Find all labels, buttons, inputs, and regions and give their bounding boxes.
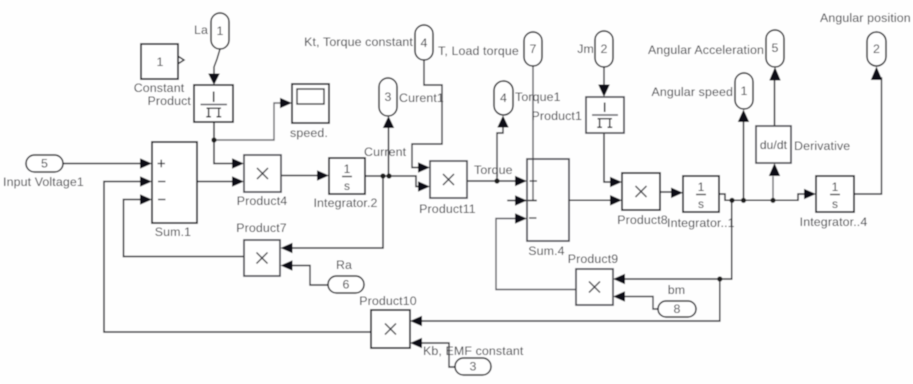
svg-text:1: 1 bbox=[740, 84, 747, 98]
arrow into Sum.4 input2 bbox=[515, 195, 527, 206]
wire du-dt up to Angular Acceleration bbox=[774, 81, 776, 126]
icon X Product11 bbox=[443, 174, 454, 185]
svg-text:Sum.4: Sum.4 bbox=[528, 244, 564, 258]
svg-text:Angular Acceleration: Angular Acceleration bbox=[648, 43, 764, 57]
svg-text:Sum.1: Sum.1 bbox=[155, 225, 191, 239]
integrator block Integrator..1 body bbox=[683, 176, 719, 212]
svg-text:Angular speed: Angular speed bbox=[652, 85, 733, 99]
divide block Product1 body bbox=[586, 97, 624, 133]
arrow up into Angular position bbox=[871, 67, 882, 81]
port Kb EMF constant 3 bbox=[455, 358, 491, 375]
sum block Sum.1 body bbox=[152, 142, 197, 223]
wire Product11 output to Sum.4 input1 bbox=[467, 180, 516, 182]
wire Product4 to Integrator.2 bbox=[281, 175, 317, 177]
wire stub Sum.4 input2 bbox=[508, 200, 536, 202]
arrowheads bbox=[140, 67, 882, 349]
icon 1-s Integrator..4 bbox=[830, 194, 840, 196]
wire Product1 output to Product8 input1 bbox=[604, 133, 611, 182]
wire speed node up to Angular speed bbox=[743, 122, 745, 200]
svg-text:Product9: Product9 bbox=[568, 252, 619, 266]
wire current node down to Product7 input1 bbox=[292, 176, 383, 248]
port La 1 bbox=[211, 13, 229, 49]
svg-text:1: 1 bbox=[156, 55, 163, 69]
icon divide Product1 bbox=[592, 103, 618, 128]
product block Product9 body bbox=[576, 269, 613, 305]
wire junction to speed scope bbox=[214, 103, 281, 140]
arrow up into Curent1 bbox=[383, 116, 394, 128]
svg-text:Integrator..4: Integrator..4 bbox=[800, 215, 868, 229]
sign marks Sum.1 bbox=[158, 160, 166, 200]
divide block Product body bbox=[194, 85, 233, 122]
svg-text:Product10: Product10 bbox=[359, 294, 417, 308]
svg-text:5: 5 bbox=[771, 41, 778, 55]
svg-text:s: s bbox=[832, 197, 838, 211]
arrow into Product7 input1 bbox=[281, 243, 293, 254]
node feedback junction bbox=[717, 276, 722, 281]
wire Integrator..4 output to Angular position bbox=[854, 75, 882, 194]
icon X Product7 bbox=[257, 253, 268, 264]
wire Product10 output to Sum.1 input2 bbox=[104, 182, 371, 333]
product block Product11 body bbox=[430, 161, 467, 198]
svg-text:Integrator.2: Integrator.2 bbox=[313, 196, 377, 210]
svg-text:Integrator..1: Integrator..1 bbox=[667, 216, 735, 230]
blocks bbox=[141, 44, 854, 348]
svg-text:Derivative: Derivative bbox=[794, 139, 850, 153]
svg-text:2: 2 bbox=[600, 42, 607, 56]
wire current node up to Curent1 bbox=[388, 128, 390, 176]
svg-text:2: 2 bbox=[873, 42, 880, 56]
svg-text:Constant: Constant bbox=[134, 81, 185, 95]
derivative block du-dt body bbox=[756, 126, 791, 163]
svg-text:4: 4 bbox=[420, 36, 427, 50]
arrow into Product8 input2 bbox=[610, 195, 622, 206]
port Torque1 4 bbox=[494, 81, 513, 115]
product block Product4 body bbox=[244, 155, 281, 192]
svg-text:Product8: Product8 bbox=[617, 213, 668, 227]
svg-text:Torque1: Torque1 bbox=[515, 90, 561, 104]
node Product output junction bbox=[211, 137, 216, 142]
node speed junction 1 bbox=[729, 198, 734, 203]
icon X Product9 bbox=[589, 282, 600, 293]
svg-text:T, Load torque: T, Load torque bbox=[438, 44, 519, 58]
wire speed node down to Product9 input1 bbox=[624, 200, 732, 279]
scope speed. body bbox=[292, 84, 329, 123]
wire speed node down to Product10 input1 bbox=[421, 279, 720, 321]
svg-text:7: 7 bbox=[529, 42, 536, 56]
wire La to Product bbox=[214, 49, 220, 74]
svg-text:3: 3 bbox=[384, 90, 391, 104]
wire Product9 output to Sum.4 input3 bbox=[496, 219, 576, 290]
product block Product8 body bbox=[622, 173, 660, 210]
svg-text:s: s bbox=[698, 197, 704, 211]
arrow into Sum.1 input2 bbox=[140, 176, 152, 187]
wire Integrator.2 output to Product11 input2 bbox=[365, 176, 419, 187]
svg-text:Angular position: Angular position bbox=[820, 11, 911, 25]
arrow into Product10 input1 bbox=[410, 316, 422, 327]
wire Input Voltage1 to Sum.1 bbox=[63, 163, 141, 165]
arrow into Sum.4 input3 bbox=[515, 213, 527, 224]
arrow into Sum.1 input3 bbox=[140, 194, 152, 205]
icon X Product4 bbox=[257, 168, 268, 179]
sign marks Sum.4 bbox=[529, 181, 537, 218]
svg-text:6: 6 bbox=[342, 278, 349, 292]
integrator block Integrator..4 body bbox=[816, 176, 854, 212]
arrow into Product11 input1 bbox=[418, 162, 430, 173]
arrow up into Torque1 bbox=[497, 116, 508, 128]
wire Integrator..1 output main speed line bbox=[719, 194, 805, 200]
svg-text:8: 8 bbox=[673, 302, 680, 316]
icon 1-s Integrator..1 bbox=[696, 194, 706, 196]
svg-text:Product: Product bbox=[147, 94, 191, 108]
constant block body bbox=[141, 44, 178, 79]
svg-text:Jm: Jm bbox=[577, 42, 594, 56]
node current junction B bbox=[386, 173, 391, 178]
wire Sum.1 output to Product4 input2 bbox=[197, 181, 233, 183]
svg-text:speed.: speed. bbox=[290, 126, 328, 140]
arrow up into Angular speed bbox=[738, 110, 749, 123]
icon X Product8 bbox=[636, 186, 647, 197]
port bm 8 bbox=[658, 301, 696, 317]
product block Product10 body bbox=[371, 310, 410, 348]
svg-text:Product11: Product11 bbox=[419, 202, 476, 216]
icon X Product10 bbox=[385, 324, 396, 335]
arrow into Sum.4 input1 bbox=[515, 176, 527, 187]
svg-text:Torque: Torque bbox=[474, 163, 513, 177]
port Kt 4 bbox=[415, 25, 433, 60]
svg-text:La: La bbox=[194, 23, 208, 37]
wire Product7 output to Sum.1 input3 bbox=[124, 200, 245, 257]
svg-text:1: 1 bbox=[344, 162, 351, 176]
scope speed. screen bbox=[297, 89, 324, 104]
wire bm to Product9 input2 bbox=[624, 297, 658, 310]
junction dots bbox=[211, 137, 775, 281]
arrow into Product9 input1 bbox=[613, 274, 625, 285]
svg-text:Kb, EMF constant: Kb, EMF constant bbox=[423, 344, 524, 358]
svg-text:s: s bbox=[344, 179, 350, 193]
port Angular speed 1 bbox=[735, 73, 753, 109]
product block Product7 body bbox=[244, 240, 280, 276]
svg-text:bm: bm bbox=[668, 283, 685, 297]
wire Sum.4 output to Product8 input2 bbox=[569, 199, 611, 201]
svg-text:Current: Current bbox=[364, 145, 407, 159]
port T Load torque 7 bbox=[524, 32, 542, 66]
icon divide Product bbox=[201, 92, 228, 117]
svg-text:Product7: Product7 bbox=[236, 221, 287, 235]
port Angular Acceleration 5 bbox=[766, 30, 784, 67]
arrow into Product10 input2 bbox=[410, 338, 422, 349]
svg-text:1: 1 bbox=[698, 180, 705, 194]
sum block Sum.4 body bbox=[527, 159, 569, 241]
wire Kb EMF to Product10 input2 bbox=[421, 343, 455, 367]
arrow into Product8 input1 bbox=[610, 177, 622, 188]
port Jm 2 bbox=[595, 31, 613, 67]
svg-text:5: 5 bbox=[41, 157, 48, 171]
port Input Voltage1 5 bbox=[26, 155, 63, 172]
arrow into scope bbox=[280, 98, 292, 109]
arrow into Integrator..4 bbox=[804, 189, 816, 200]
node speed junction 3 bbox=[770, 198, 775, 203]
svg-text:Ra: Ra bbox=[336, 258, 352, 272]
node current junction A bbox=[380, 173, 385, 178]
arrow into Product4 input1 bbox=[232, 158, 244, 169]
node torque junction bbox=[494, 178, 499, 183]
node speed junction 2 bbox=[741, 198, 746, 203]
svg-text:3: 3 bbox=[469, 360, 476, 374]
svg-text:du/dt: du/dt bbox=[760, 138, 788, 152]
svg-text:Input Voltage1: Input Voltage1 bbox=[3, 175, 84, 189]
wire node up to du-dt bbox=[772, 177, 774, 200]
arrow into Product9 input2 bbox=[613, 291, 625, 302]
arrow into Sum.1 input1 bbox=[140, 158, 152, 169]
constant block output chevron bbox=[179, 57, 185, 64]
wire T Load torque down over Sum.4 bbox=[532, 66, 534, 200]
wire torque node up to Torque1 bbox=[497, 128, 503, 181]
arrow into Product7 input2 bbox=[281, 260, 293, 271]
arrow up into du-dt bbox=[769, 163, 780, 176]
integrator block Integrator.2 body bbox=[329, 158, 365, 194]
wire Jm to Product1 bbox=[603, 67, 605, 85]
wire Product8 to Integrator..1 bbox=[660, 191, 672, 193]
arrow into Product top bbox=[208, 74, 220, 86]
icon 1-s Integrator.2 bbox=[342, 176, 352, 178]
svg-text:4: 4 bbox=[500, 91, 507, 105]
svg-text:1: 1 bbox=[216, 24, 223, 38]
arrow up into Angular Acceleration bbox=[769, 67, 780, 81]
arrow into Product4 input2 bbox=[232, 176, 244, 187]
svg-text:Product4: Product4 bbox=[237, 194, 288, 208]
port Ra 6 bbox=[328, 276, 364, 293]
arrow into Integrator..1 bbox=[671, 188, 683, 199]
wire Product output down to Product4 input1 bbox=[214, 122, 233, 164]
arrow into Product1 top bbox=[598, 85, 610, 98]
svg-text:Kt, Torque constant: Kt, Torque constant bbox=[304, 35, 413, 49]
port Curent1 3 bbox=[379, 78, 397, 116]
arrow into Integrator.2 bbox=[317, 170, 329, 181]
svg-text:1: 1 bbox=[832, 180, 839, 194]
arrow into Product11 input2 bbox=[418, 181, 430, 192]
wire Kt to Product11 input1 bbox=[412, 60, 442, 168]
svg-text:Product1: Product1 bbox=[531, 109, 582, 123]
svg-text:Curent1: Curent1 bbox=[399, 91, 444, 105]
port Angular position 2 bbox=[867, 32, 886, 66]
wire Ra to Product7 input2 bbox=[292, 266, 328, 286]
